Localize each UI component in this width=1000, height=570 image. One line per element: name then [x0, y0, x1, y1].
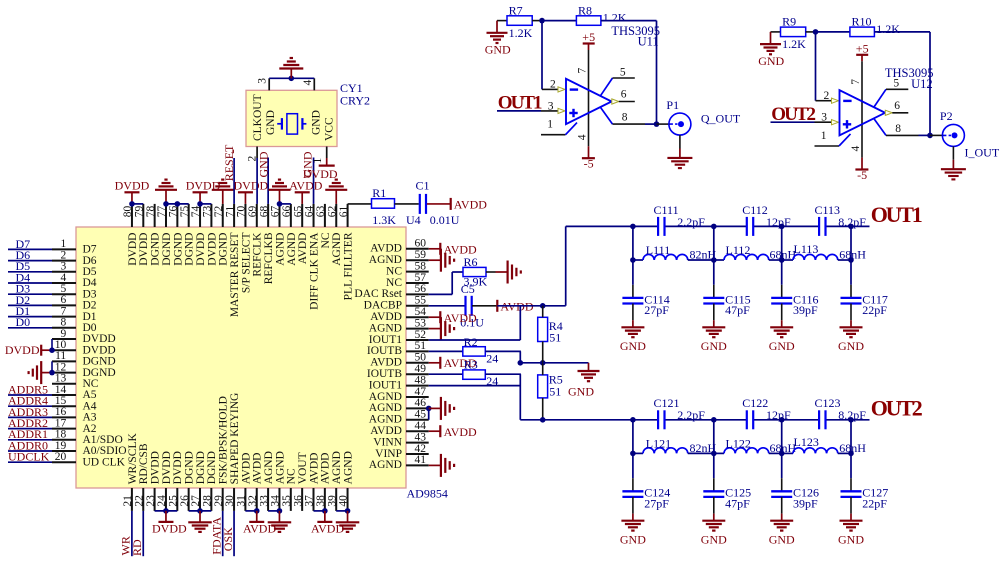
svg-text:GND: GND — [568, 384, 594, 398]
svg-text:MASTER RESET: MASTER RESET — [229, 233, 241, 318]
pin 19 (A0/SDIO) — [52, 440, 127, 457]
svg-text:C113: C113 — [815, 203, 841, 217]
svg-text:35: 35 — [281, 495, 293, 507]
svg-text:15: 15 — [55, 395, 67, 407]
connector P2 — [940, 109, 965, 146]
pin 65 (AVDD) — [292, 204, 309, 264]
svg-text:VOUT: VOUT — [297, 452, 309, 484]
svg-text:78: 78 — [145, 205, 157, 217]
svg-text:DVDD: DVDD — [161, 451, 173, 484]
svg-text:NC: NC — [386, 277, 402, 289]
svg-text:27pF: 27pF — [644, 303, 669, 317]
power flag DVDD pins 9-10 — [5, 339, 55, 357]
svg-text:C122: C122 — [742, 396, 768, 410]
svg-text:GND: GND — [701, 532, 727, 546]
power flag DVDD pins 23-25 — [152, 508, 187, 535]
pin 16 (A3) — [52, 406, 97, 423]
svg-text:RESET: RESET — [222, 144, 236, 181]
net label OUT2 — [771, 104, 815, 125]
labels CY1 CRY2 — [340, 81, 370, 107]
svg-text:0.01U: 0.01U — [430, 213, 460, 227]
svg-text:DGND: DGND — [161, 233, 173, 266]
pin 2 (D6) — [52, 249, 97, 266]
pin 31 (AVDD) — [236, 453, 253, 511]
svg-text:71: 71 — [224, 205, 236, 217]
net label OUT1 — [871, 202, 922, 227]
svg-text:52: 52 — [415, 329, 427, 341]
svg-text:L122: L122 — [726, 436, 751, 450]
wire net D2 to pin 6 — [8, 293, 52, 307]
resistor R1 — [372, 186, 397, 227]
svg-text:39pF: 39pF — [793, 497, 818, 511]
wire net ADDR2 to pin 17 — [8, 416, 52, 430]
svg-text:DVDD: DVDD — [83, 333, 116, 345]
svg-text:5: 5 — [893, 78, 899, 90]
svg-text:16: 16 — [55, 406, 67, 418]
pin 30 (SHAPED KEYING) — [224, 393, 241, 511]
svg-text:43: 43 — [415, 431, 427, 443]
resistor R5 — [538, 372, 563, 398]
svg-text:68: 68 — [258, 205, 270, 217]
svg-text:39: 39 — [326, 495, 338, 507]
svg-text:47: 47 — [415, 386, 427, 398]
svg-text:25: 25 — [168, 495, 180, 507]
svg-text:62: 62 — [326, 205, 338, 217]
svg-text:1: 1 — [312, 158, 324, 164]
svg-text:DIFF CLK ENA: DIFF CLK ENA — [308, 232, 320, 310]
svg-text:D3: D3 — [83, 288, 97, 300]
svg-text:AGND: AGND — [331, 233, 343, 266]
pin 39 (AGND) — [326, 451, 343, 511]
svg-text:D0: D0 — [16, 315, 31, 329]
pin 78 (DGND) — [145, 204, 162, 266]
wire node to op-amp pin 2 — [542, 21, 565, 92]
svg-text:A0/SDIO: A0/SDIO — [83, 445, 127, 457]
svg-text:2: 2 — [823, 90, 829, 102]
svg-text:23: 23 — [145, 495, 157, 507]
svg-text:77: 77 — [156, 205, 168, 217]
connector P1 — [666, 98, 691, 135]
wire R6 to ground — [486, 271, 508, 273]
pin 61 (PLL FILLTER) — [338, 204, 355, 300]
wire OUT1 filter columns — [630, 224, 854, 263]
svg-text:DGND: DGND — [83, 356, 116, 368]
pin 3 (D5) — [52, 261, 97, 278]
power +5 to pin 7 — [850, 41, 869, 157]
power -5 to pin 4 — [576, 134, 595, 170]
svg-text:DVDD: DVDD — [5, 343, 40, 357]
ground at R6 — [508, 261, 521, 284]
svg-text:5: 5 — [620, 66, 626, 78]
svg-text:27pF: 27pF — [644, 497, 669, 511]
svg-text:R6: R6 — [464, 255, 478, 269]
svg-text:A5: A5 — [83, 389, 97, 401]
capacitor C116 with ground — [769, 260, 819, 353]
pin 21 (WR/SCLK) — [122, 432, 139, 510]
svg-text:46: 46 — [415, 397, 427, 409]
svg-text:AVDD: AVDD — [308, 453, 320, 485]
ground pin 72 — [212, 180, 234, 204]
wire net D6 to pin 2 — [8, 248, 52, 262]
svg-text:AVDD: AVDD — [370, 357, 402, 369]
resistor R3 — [463, 357, 498, 388]
ground pin 41 — [429, 454, 454, 477]
svg-text:IOUTB: IOUTB — [367, 345, 402, 357]
svg-text:A3: A3 — [83, 412, 97, 424]
svg-text:61: 61 — [338, 205, 350, 217]
svg-text:51: 51 — [549, 385, 561, 399]
svg-text:30: 30 — [224, 495, 236, 507]
svg-text:DVDD: DVDD — [115, 179, 150, 193]
pin 34 (AGND) — [270, 451, 287, 511]
pin 80 (DVDD) — [122, 204, 139, 266]
pin 47 (AGND) — [369, 386, 429, 403]
svg-text:56: 56 — [415, 283, 427, 295]
op-amp pin 8 — [874, 119, 930, 136]
wire to connector P2 — [930, 134, 944, 136]
pin 41 (AGND) — [369, 454, 429, 471]
pin 49 (IOUTB) — [367, 363, 429, 380]
svg-text:GND: GND — [311, 110, 323, 135]
op-amp pin 5 — [601, 66, 635, 95]
op-amp U12 THS3095 — [840, 66, 934, 135]
pin 48 (IOUT1) — [369, 374, 429, 391]
svg-text:GND: GND — [769, 532, 795, 546]
svg-text:U11: U11 — [638, 35, 659, 49]
svg-text:R8: R8 — [578, 3, 592, 17]
svg-text:2: 2 — [60, 249, 66, 261]
svg-text:2: 2 — [550, 79, 556, 91]
wire node to R10 — [816, 31, 850, 33]
svg-text:72: 72 — [213, 205, 225, 217]
svg-text:AVDD: AVDD — [320, 453, 332, 485]
svg-text:D0: D0 — [83, 322, 97, 334]
wire net ADDR4 to pin 15 — [8, 394, 52, 408]
svg-text:RD: RD — [130, 539, 144, 556]
svg-text:50: 50 — [415, 352, 427, 364]
svg-text:26: 26 — [179, 495, 191, 507]
wire net OSK from pin 30 — [221, 511, 235, 556]
pin 50 (AVDD) — [370, 352, 428, 369]
wire net RD from pin 22 — [130, 511, 144, 556]
wire to connector P1 — [657, 123, 671, 125]
ground pins 33-34 — [268, 508, 292, 532]
wire OUT2 to op-amp pin 3 — [771, 112, 839, 125]
pin 14 (A5) — [52, 384, 97, 401]
pin 13 (NC) — [52, 373, 99, 390]
pin 15 (A4) — [52, 395, 97, 412]
ground pins 46-45 — [426, 397, 454, 420]
svg-text:12pF: 12pF — [766, 215, 791, 229]
pin 43 (VINN) — [373, 431, 428, 448]
svg-text:18: 18 — [55, 429, 67, 441]
pin 68 (REFCLKB) — [258, 204, 275, 284]
wire net ADDR5 to pin 14 — [8, 382, 52, 396]
pin 28 (DGND) — [202, 451, 219, 511]
svg-text:REFCLK: REFCLK — [252, 232, 264, 277]
svg-text:D6: D6 — [83, 255, 97, 267]
crystal pin 3 stub — [257, 78, 270, 91]
svg-text:76: 76 — [168, 205, 180, 217]
wire C5 to node — [472, 305, 497, 307]
svg-text:3: 3 — [60, 261, 66, 273]
svg-text:AVDD: AVDD — [252, 453, 264, 485]
wire OUT1 filter top line — [566, 225, 870, 227]
svg-text:11: 11 — [55, 350, 66, 362]
wire crystal top — [269, 76, 314, 82]
svg-text:GND: GND — [265, 110, 277, 135]
svg-text:IOUT1: IOUT1 — [369, 379, 402, 391]
power flag DVDD pins 74-73 — [186, 179, 221, 207]
wire R3 to OUT2 node — [485, 374, 521, 420]
svg-text:C1: C1 — [416, 178, 430, 192]
wire R10 to output node — [874, 32, 932, 138]
svg-text:R1: R1 — [372, 186, 386, 200]
svg-text:D5: D5 — [83, 266, 97, 278]
pin 32 (AVDD) — [247, 453, 264, 511]
svg-text:40: 40 — [338, 495, 350, 507]
wire R4 leads — [542, 306, 544, 363]
svg-text:I_OUT: I_OUT — [965, 145, 1000, 159]
wire pin 52 to DACBP node — [429, 306, 521, 340]
svg-text:67: 67 — [270, 205, 282, 217]
svg-text:+5: +5 — [582, 30, 595, 44]
pin 75 (DGND) — [179, 204, 196, 266]
svg-text:AVDD: AVDD — [370, 425, 402, 437]
svg-text:7: 7 — [60, 305, 66, 317]
wire net D3 to pin 5 — [8, 282, 52, 296]
IC U? AD9854 body — [76, 227, 406, 488]
svg-text:1.2K: 1.2K — [876, 22, 900, 36]
wire net WR from pin 21 — [119, 511, 133, 556]
net label OUT1 — [498, 93, 542, 114]
svg-text:VCC: VCC — [324, 117, 336, 141]
svg-text:49: 49 — [415, 363, 427, 375]
svg-text:32: 32 — [247, 495, 259, 507]
power flag AVDD on DACBP net — [497, 299, 534, 313]
svg-text:GND: GND — [701, 339, 727, 353]
net label I_OUT — [965, 145, 1000, 159]
pin 17 (A2) — [52, 417, 97, 434]
pin 74 (DVDD) — [190, 204, 207, 266]
svg-text:5: 5 — [60, 283, 66, 295]
svg-text:42: 42 — [415, 443, 427, 455]
pin 18 (A1/SDO) — [52, 429, 123, 446]
capacitor C112 — [742, 203, 791, 236]
svg-text:DVDD: DVDD — [127, 233, 139, 266]
resistor R10 — [850, 15, 900, 37]
svg-text:DGND: DGND — [218, 233, 230, 266]
wire net ADDR1 to pin 18 — [8, 427, 52, 441]
pin 58 (NC) — [386, 260, 429, 277]
wire R8 to output node — [601, 21, 659, 127]
svg-text:60: 60 — [415, 238, 427, 250]
wire pin 48 to node — [429, 385, 521, 387]
crystal CY1 CRY2 body — [246, 90, 337, 146]
svg-text:RD/CSB: RD/CSB — [138, 443, 150, 484]
inductor L112 — [714, 243, 797, 262]
svg-text:1: 1 — [821, 130, 827, 142]
svg-text:GND: GND — [485, 43, 511, 57]
svg-text:31: 31 — [236, 495, 248, 507]
svg-text:C123: C123 — [815, 396, 841, 410]
crystal pin 4 stub — [302, 78, 314, 90]
inductor L113 — [782, 242, 867, 262]
wire node row — [520, 360, 545, 366]
svg-text:P2: P2 — [940, 109, 953, 123]
capacitor C126 with ground — [769, 453, 819, 546]
wire OUT2 filter columns — [630, 417, 854, 456]
op-amp pin 6 output — [612, 89, 635, 105]
svg-text:NC: NC — [320, 232, 332, 248]
ground pins 11-12 — [29, 361, 55, 384]
power flag DVDD crystal pin 1 — [303, 158, 338, 181]
pin 45 (AGND) — [369, 409, 429, 426]
wire pin 55 to C5 — [429, 305, 466, 307]
pin 29 (FSK/BPSK/HOLD) — [213, 396, 230, 511]
svg-text:29: 29 — [213, 495, 225, 507]
svg-text:AVDD: AVDD — [243, 521, 276, 535]
wire AVDD bar to R4 node — [497, 303, 545, 309]
power flag AVDD pin 50 — [429, 356, 477, 370]
svg-text:DVDD: DVDD — [234, 179, 269, 193]
svg-text:OSK: OSK — [221, 527, 235, 551]
svg-text:AVDD: AVDD — [454, 198, 487, 212]
svg-text:D2: D2 — [83, 300, 97, 312]
svg-text:FSK/BPSK/HOLD: FSK/BPSK/HOLD — [218, 396, 230, 484]
svg-text:8: 8 — [895, 123, 901, 135]
svg-text:22: 22 — [133, 495, 145, 507]
svg-text:AVDD: AVDD — [240, 453, 252, 485]
svg-text:2.2pF: 2.2pF — [677, 215, 705, 229]
resistor R4 — [538, 317, 563, 344]
svg-text:69: 69 — [247, 205, 259, 217]
wire node to op-amp pin 2 — [816, 32, 839, 103]
svg-text:R9: R9 — [782, 15, 796, 29]
svg-text:8: 8 — [622, 112, 628, 124]
pin 77 (DGND) — [156, 204, 173, 266]
pin 27 (DGND) — [190, 451, 207, 511]
svg-text:45: 45 — [415, 409, 427, 421]
svg-text:REFCLKB: REFCLKB — [263, 232, 275, 284]
pin 44 (AVDD) — [370, 420, 428, 437]
svg-text:3: 3 — [548, 100, 554, 112]
svg-text:UD CLK: UD CLK — [83, 456, 126, 468]
crystal symbol — [277, 114, 306, 134]
svg-text:DVDD: DVDD — [206, 233, 218, 266]
svg-text:6: 6 — [60, 294, 66, 306]
pin 72 (DGND) — [213, 204, 230, 266]
svg-text:82nH: 82nH — [690, 441, 717, 455]
wire R7 to node — [532, 18, 545, 24]
svg-text:Q_OUT: Q_OUT — [701, 111, 741, 125]
capacitor C1 — [406, 178, 460, 227]
wire pin 49 to R3 — [429, 373, 463, 375]
pin 38 (AVDD) — [315, 453, 332, 511]
svg-text:54: 54 — [415, 306, 427, 318]
ground pin 62 — [325, 180, 347, 204]
pin 23 (DVDD) — [145, 451, 162, 511]
wire net GND pin 64 — [300, 151, 314, 204]
svg-text:6: 6 — [894, 100, 900, 112]
resistor R2 — [463, 335, 498, 366]
svg-text:L121: L121 — [646, 436, 671, 450]
svg-text:AGND: AGND — [369, 391, 402, 403]
svg-text:DGND: DGND — [195, 451, 207, 484]
svg-text:-5: -5 — [584, 157, 594, 171]
ground at R7 — [485, 21, 511, 57]
svg-text:53: 53 — [415, 317, 427, 329]
capacitor C121 — [654, 396, 706, 429]
pin 73 (DVDD) — [202, 204, 219, 266]
svg-text:DGND: DGND — [184, 233, 196, 266]
svg-text:L111: L111 — [646, 243, 670, 257]
svg-text:WR/SCLK: WR/SCLK — [127, 432, 139, 484]
wire net D1 to pin 7 — [8, 304, 52, 318]
svg-text:SHAPED KEYING: SHAPED KEYING — [229, 393, 241, 485]
pin 59 (AGND) — [369, 249, 429, 266]
svg-text:70: 70 — [236, 205, 248, 217]
svg-text:A1/SDO: A1/SDO — [83, 434, 123, 446]
svg-text:AGND: AGND — [369, 322, 402, 334]
svg-text:P1: P1 — [666, 98, 679, 112]
op-amp pin 5 — [874, 78, 908, 107]
pin 71 (MASTER RESET) — [224, 204, 241, 317]
crystal pin names — [252, 94, 336, 141]
pin 63 (NC) — [315, 204, 332, 249]
svg-text:4: 4 — [302, 80, 314, 86]
power flag AVDD pins 37-38 — [311, 508, 344, 535]
svg-text:CRY2: CRY2 — [340, 93, 370, 107]
inductor L121 — [633, 436, 717, 455]
pin 55 (DACBP) — [364, 295, 429, 312]
svg-text:44: 44 — [415, 420, 427, 432]
svg-text:L113: L113 — [794, 242, 819, 256]
svg-text:DGND: DGND — [184, 451, 196, 484]
svg-text:47pF: 47pF — [725, 497, 750, 511]
svg-text:AGND: AGND — [274, 233, 286, 266]
wire net UDCLK to pin 20 — [8, 450, 52, 464]
svg-text:12: 12 — [55, 361, 67, 373]
pin 69 (REFCLK) — [247, 204, 264, 277]
svg-text:OUT2: OUT2 — [871, 396, 923, 421]
svg-text:59: 59 — [415, 249, 427, 261]
svg-text:24: 24 — [486, 351, 498, 365]
power flag DVDD pins 80-79 — [115, 179, 150, 207]
ground at R9 — [758, 32, 784, 68]
pin 46 (AGND) — [369, 397, 429, 414]
svg-text:R3: R3 — [464, 357, 478, 371]
wire node to R8 — [542, 20, 576, 22]
wire pin 61 to R1 — [348, 203, 372, 205]
svg-text:DGND: DGND — [206, 451, 218, 484]
svg-text:DVDD: DVDD — [195, 233, 207, 266]
svg-text:9: 9 — [60, 328, 66, 340]
net label Q_OUT — [701, 111, 741, 125]
svg-text:DVDD: DVDD — [152, 521, 187, 535]
crystal pin 1 stub — [312, 147, 327, 164]
svg-text:DVDD: DVDD — [150, 451, 162, 484]
pin 60 (AVDD) — [370, 238, 428, 255]
wire net D0 to pin 8 — [8, 315, 52, 329]
ground mid GND — [568, 363, 600, 399]
svg-text:DVDD: DVDD — [303, 167, 338, 181]
svg-text:33: 33 — [258, 495, 270, 507]
svg-text:R2: R2 — [464, 335, 478, 349]
wire R2 to node — [485, 351, 523, 365]
pin 7 (D1) — [52, 305, 97, 322]
pin 11 (DGND) — [52, 350, 116, 367]
